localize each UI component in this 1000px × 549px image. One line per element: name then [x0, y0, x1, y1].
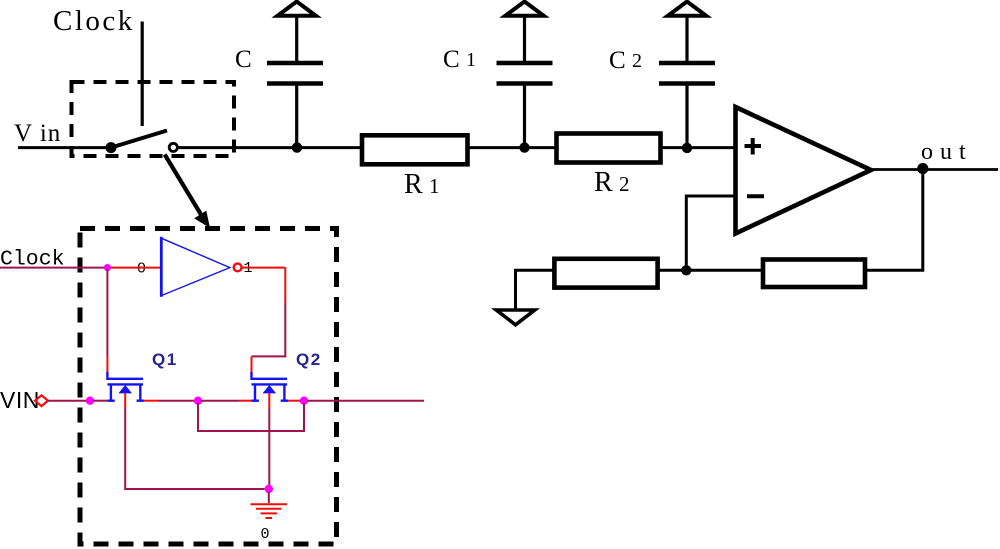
- wire node C to R1: [297, 146, 362, 149]
- dashed box around switch S1: [72, 82, 235, 156]
- wire clock net (maroon): [0, 267, 105, 269]
- wire R3 to ground: [516, 270, 555, 308]
- resistor R2: [557, 134, 661, 163]
- arrow from switch to detail box: [165, 155, 204, 220]
- wire VIN to node A (maroon): [48, 400, 87, 402]
- switch S1 pivot: [106, 142, 117, 153]
- port VIN diamond: [35, 395, 48, 406]
- node out: [917, 163, 928, 174]
- svg-text:1: 1: [429, 174, 440, 198]
- wire node B to Q2: [201, 400, 239, 402]
- wire between resistors: [658, 269, 763, 272]
- wire switch to node C: [178, 146, 294, 149]
- svg-text:C: C: [609, 47, 626, 74]
- wire Q1 gate lead (maroon then red): [106, 269, 108, 356]
- wire Q1 drain to node B: [144, 400, 159, 402]
- svg-text:C: C: [443, 46, 460, 73]
- wire Q2 gate lead (red then maroon): [284, 268, 286, 303]
- wire Q1 bulk (red then maroon): [124, 393, 126, 409]
- wire minus input: [686, 196, 735, 270]
- svg-text:R: R: [594, 167, 613, 198]
- svg-text:0: 0: [137, 261, 146, 278]
- op-amp U1: [736, 107, 872, 234]
- svg-text:VIN: VIN: [0, 387, 40, 413]
- junction node C: [300, 397, 308, 405]
- capacitor C plates: [267, 63, 323, 84]
- ground symbol (triangle): [496, 310, 534, 325]
- svg-text:Q2: Q2: [296, 350, 322, 369]
- svg-text:2: 2: [632, 50, 642, 72]
- junction ground node: [265, 485, 273, 493]
- node at capacitor C2: [682, 143, 692, 153]
- capacitor C1 leads: [523, 86, 526, 148]
- wire Q2 source to node C (red): [288, 400, 300, 402]
- resistor R3 to ground: [554, 259, 657, 288]
- wire feedback from out: [865, 169, 923, 270]
- resistor R1: [362, 135, 468, 164]
- wire Q2 bulk (red then maroon): [268, 393, 270, 409]
- svg-text:Clock: Clock: [53, 5, 135, 37]
- switch S1 arm: [111, 131, 167, 148]
- wire ground lead (maroon): [268, 492, 270, 503]
- node feedback: [681, 265, 691, 275]
- svg-text:0: 0: [261, 526, 270, 543]
- op-amp plus input sign: [745, 138, 762, 155]
- VDD arrow above C2: [668, 2, 706, 16]
- node at capacitor C: [292, 142, 302, 152]
- svg-text:out: out: [921, 139, 973, 165]
- junction clock node: [104, 264, 111, 271]
- switch S1 contact: [169, 143, 177, 151]
- inverter U2 triangle: [161, 237, 230, 297]
- capacitor C1 plates: [497, 63, 553, 84]
- junction node B: [194, 397, 202, 405]
- junction node A: [86, 397, 94, 405]
- node at capacitor C1: [519, 142, 529, 152]
- wire inverter output (red): [242, 267, 285, 269]
- capacitor C leads: [295, 86, 298, 148]
- svg-text:2: 2: [619, 172, 630, 196]
- svg-text:R: R: [404, 169, 423, 200]
- capacitor C2 plates: [659, 63, 715, 84]
- resistor R4 feedback: [763, 260, 865, 288]
- wire op-amp output: [869, 168, 998, 171]
- VDD arrow above C1: [505, 2, 543, 16]
- svg-text:1: 1: [466, 49, 476, 71]
- dashed box transmission-gate detail: [80, 229, 337, 545]
- svg-text:Q1: Q1: [152, 350, 178, 369]
- wire R2 to op-amp: [661, 146, 738, 149]
- wire clock to inverter (red): [111, 267, 162, 269]
- inverter output bubble: [234, 264, 242, 272]
- ground symbol 0 (red earth): [251, 504, 288, 518]
- svg-text:V in: V in: [14, 120, 61, 147]
- wire clock vertical: [141, 22, 144, 127]
- VDD arrow above C: [278, 2, 316, 16]
- capacitor C2 leads: [685, 86, 688, 148]
- wire R1 to node C1: [468, 146, 557, 149]
- wire node A to Q1 (maroon): [93, 400, 107, 402]
- op-amp minus input sign: [747, 194, 764, 198]
- wire cross-coupling U loop (maroon): [198, 403, 304, 431]
- svg-text:C: C: [235, 46, 252, 73]
- wire output of gate (maroon): [307, 400, 424, 402]
- wire Vin input: [18, 146, 106, 149]
- transistor Q2: [252, 372, 289, 401]
- transistor Q1: [107, 372, 143, 401]
